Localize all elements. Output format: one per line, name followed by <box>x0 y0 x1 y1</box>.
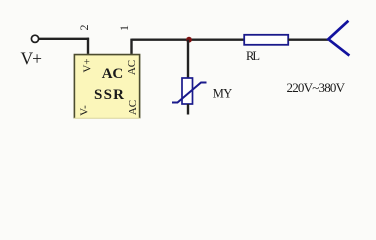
svg-text:1: 1 <box>117 25 131 31</box>
junction dot <box>186 37 192 43</box>
wire junction to varistor <box>187 40 189 78</box>
AC SSR box border (top, left, right) <box>74 55 139 119</box>
output terminal arrow <box>328 21 349 56</box>
wire varistor bottom stub <box>187 104 189 115</box>
svg-text:MY: MY <box>213 87 233 101</box>
wire resistor to output arrow <box>288 39 328 41</box>
svg-text:V+: V+ <box>21 49 43 69</box>
svg-text:V-: V- <box>79 105 91 116</box>
svg-text:AC: AC <box>127 100 139 115</box>
wire pin 1 stub <box>130 39 132 55</box>
svg-text:220V~380V: 220V~380V <box>287 80 346 95</box>
svg-text:RL: RL <box>246 49 260 63</box>
wire terminal to pin 2 <box>39 38 89 40</box>
svg-text:V+: V+ <box>82 58 94 72</box>
svg-text:AC: AC <box>126 60 138 75</box>
wire pin 2 stub <box>87 38 89 55</box>
varistor MY diagonal stroke <box>172 83 207 103</box>
svg-text:2: 2 <box>77 25 91 31</box>
terminal circle V+ <box>31 35 38 42</box>
wire pin 1 to resistor RL <box>132 39 245 41</box>
varistor MY body <box>182 78 193 104</box>
AC SSR box bottom faded edge <box>74 117 140 119</box>
svg-text:AC: AC <box>102 66 124 82</box>
svg-text:SSR: SSR <box>94 87 124 103</box>
resistor RL body <box>244 35 288 45</box>
AC SSR box body <box>74 54 141 119</box>
